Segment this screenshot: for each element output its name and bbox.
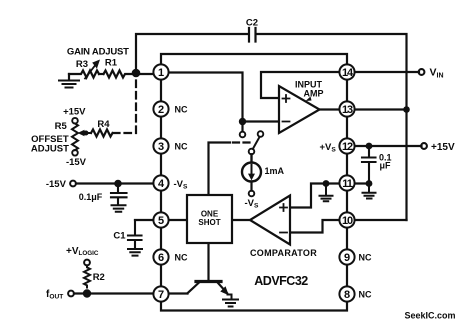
capacitor C1 <box>128 220 142 249</box>
transistor Q1 <box>196 280 221 283</box>
wire op-amp output to pin 13 <box>320 108 340 110</box>
R5 top terminal <box>72 118 78 124</box>
VIN terminal circle <box>419 69 425 75</box>
svg-text:1: 1 <box>158 67 164 79</box>
wire one-shot to switch control <box>209 143 231 196</box>
wire R3 to R1 <box>99 73 104 75</box>
junction node switch/op-amp - <box>239 118 246 125</box>
junction node R2/fOUT <box>83 289 91 297</box>
ground at R3 <box>68 74 70 80</box>
one-shot box U1 <box>187 195 232 243</box>
svg-text:NC: NC <box>175 104 188 114</box>
ground at 0.1uF left <box>112 205 126 212</box>
wire pin10 right to vertical <box>355 219 407 221</box>
pin 2 <box>153 101 168 116</box>
wire C2 loop: input node up, across top, down right side <box>136 34 247 72</box>
wire junction to op-amp inverting input <box>243 120 280 122</box>
pin 10 <box>339 212 354 227</box>
svg-text:8: 8 <box>344 289 350 301</box>
fOUT terminal circle <box>68 291 74 297</box>
switch arm <box>253 137 260 149</box>
ground at pin12 cap <box>363 184 376 199</box>
wire feedback pin14 to op-amp non-inverting input <box>261 72 339 98</box>
right pin rail <box>346 80 348 286</box>
svg-text:NC: NC <box>359 289 372 299</box>
junction node pin11 cap bottom <box>366 180 373 187</box>
svg-text:AMP: AMP <box>304 89 324 99</box>
pin 6 <box>153 249 168 264</box>
wire comparator - input to pin10 <box>290 220 339 233</box>
pin 8 <box>339 286 354 301</box>
pin 4 <box>153 175 168 190</box>
svg-text:C1: C1 <box>113 231 126 242</box>
left pin rail <box>160 80 162 286</box>
pin 14 <box>339 64 354 79</box>
svg-text:10: 10 <box>342 215 353 227</box>
current source -Vs terminal <box>249 191 255 197</box>
svg-text:4: 4 <box>158 178 165 190</box>
svg-text:ADVFC32: ADVFC32 <box>254 274 308 288</box>
wire pin7 to transistor <box>169 292 188 294</box>
svg-text:NC: NC <box>175 141 188 151</box>
svg-text:R4: R4 <box>97 119 110 130</box>
ground at C1 <box>128 249 142 256</box>
svg-text:12: 12 <box>342 141 353 153</box>
R3 wiper arrow <box>85 64 97 79</box>
capacitor C2 <box>249 28 256 42</box>
svg-text:11: 11 <box>342 178 352 190</box>
ground at pin11 left <box>320 184 333 202</box>
svg-text:13: 13 <box>342 104 353 116</box>
svg-text:0.1μF: 0.1μF <box>79 192 103 202</box>
svg-text:+15V: +15V <box>63 107 86 118</box>
pin 5 <box>153 212 168 227</box>
svg-text:GAIN ADJUST: GAIN ADJUST <box>67 47 129 58</box>
ground at transistor <box>223 300 238 307</box>
wire one-shot to transistor base <box>207 243 209 280</box>
wire pin11 left to comparator + input <box>290 184 339 208</box>
wire C1 to pin5 <box>135 219 153 221</box>
potentiometer R5 <box>72 124 78 151</box>
transistor emitter arrowhead <box>220 286 229 295</box>
svg-text:-15V: -15V <box>46 179 67 190</box>
R3 arrow head <box>92 60 100 69</box>
pin 1 <box>153 64 168 79</box>
+15V terminal circle <box>421 143 427 149</box>
svg-text:R2: R2 <box>93 272 105 283</box>
-15V terminal circle <box>70 181 76 187</box>
svg-text:NC: NC <box>175 252 188 262</box>
switch pivot <box>249 149 255 155</box>
wire one-shot output to comparator <box>232 219 250 221</box>
R5 wiper wire to R4 <box>84 132 91 134</box>
wire pin14 to VIN terminal <box>355 71 419 73</box>
pin 3 <box>153 138 168 153</box>
R5 wiper arrowhead <box>78 130 85 136</box>
pin 13 <box>339 101 354 116</box>
pin circles <box>153 64 354 301</box>
svg-text:-15V: -15V <box>66 157 87 168</box>
svg-text:7: 7 <box>158 289 164 301</box>
wire fOUT to pin7 <box>74 292 153 294</box>
svg-text:3: 3 <box>158 141 164 153</box>
svg-text:R1: R1 <box>105 58 118 69</box>
resistor R3 (gain pot) <box>69 71 99 78</box>
comparator U3 <box>250 196 290 245</box>
svg-text:R3: R3 <box>76 59 88 70</box>
svg-text:μF: μF <box>380 161 392 171</box>
switch contact A <box>240 132 246 138</box>
wire pin5 to one-shot <box>169 219 187 221</box>
current source arrowhead <box>248 174 255 181</box>
resistor R1 <box>104 71 154 78</box>
R5 bottom terminal <box>72 150 78 156</box>
junction node pin12 cap <box>366 143 373 150</box>
wire bottom rail pin7 to pin8 <box>161 302 347 311</box>
wire pin11 right <box>355 182 369 184</box>
svg-text:5: 5 <box>158 215 164 227</box>
pin 12 <box>339 138 354 153</box>
svg-text:SeekIC.com: SeekIC.com <box>404 311 455 321</box>
pin 7 <box>153 286 168 301</box>
svg-text:1mA: 1mA <box>265 166 285 176</box>
switch contact B <box>258 131 264 137</box>
svg-text:+15V: +15V <box>431 142 455 153</box>
pin 9 <box>339 249 354 264</box>
junction node R1/C2/dashed <box>132 69 141 78</box>
capacitor 0.1uF right <box>362 146 376 184</box>
svg-text:9: 9 <box>344 252 350 264</box>
svg-text:NC: NC <box>359 252 372 262</box>
dashed wire R4 to input node <box>113 75 136 133</box>
op-amp U2 input amp <box>279 86 320 133</box>
wire inner top: pin 1 to pin 14 <box>161 54 347 65</box>
resistor R4 <box>91 130 113 137</box>
wire pin13 to right vertical <box>355 108 407 110</box>
current source 1mA <box>250 154 252 162</box>
wire -15V to pin4 <box>76 182 153 184</box>
svg-text:R5: R5 <box>55 121 68 132</box>
wire pin12 to +15V terminal <box>355 145 422 147</box>
pin 11 <box>339 175 354 190</box>
junction node R5 wiper <box>84 131 89 136</box>
svg-text:6: 6 <box>158 252 164 264</box>
input amp label arrow <box>306 97 312 102</box>
wire pin1 to switch junction <box>169 73 243 132</box>
junction node -15V cap <box>114 180 122 188</box>
svg-text:C2: C2 <box>246 18 258 29</box>
capacitor 0.1uF left <box>111 184 127 205</box>
svg-text:SHOT: SHOT <box>198 218 220 227</box>
junction node pin13 output <box>403 106 410 113</box>
svg-text:ADJUST: ADJUST <box>31 144 69 155</box>
+VLOGIC terminal circle <box>84 260 90 266</box>
junction node pin11 ground <box>323 180 330 187</box>
resistor R2 <box>84 265 90 287</box>
svg-text:2: 2 <box>158 104 164 116</box>
svg-text:COMPARATOR: COMPARATOR <box>250 248 317 258</box>
